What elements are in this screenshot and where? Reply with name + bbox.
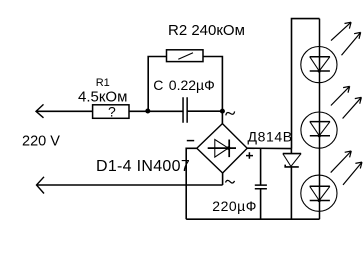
LED HL2 cathode bar [310, 135, 330, 137]
capacitor C2 220µФ plates [255, 185, 267, 189]
svg-text:4.5кОм: 4.5кОм [78, 89, 127, 106]
capacitor C plates [183, 97, 187, 123]
wire plus rail [247, 147, 291, 149]
bridge rectifier D1-4 diamond [197, 124, 247, 173]
svg-text:220 V: 220 V [22, 133, 60, 149]
wire zener branch top [290, 149, 292, 154]
LED HL1 circle [301, 47, 337, 83]
wire node B to bridge top corner [221, 111, 223, 123]
wire R2 branch right [203, 57, 222, 112]
LED HL1 junction dot [318, 69, 321, 72]
LED HL3 triangle [310, 185, 330, 187]
svg-text:C: C [153, 77, 163, 93]
zener cathode bar with tick [285, 165, 299, 167]
zener diode Д814В triangle top edge [283, 153, 301, 155]
LED HL3 arrow a [331, 151, 352, 173]
svg-text:220µФ: 220µФ [212, 198, 257, 214]
bridge inner diode wire [208, 147, 236, 149]
zener diode triangle sides [283, 154, 301, 167]
wire bottom rail [186, 218, 319, 220]
wire W1 top AC line [36, 110, 93, 112]
resistor R2 [167, 50, 204, 62]
label ~ bottom AC terminal [225, 179, 235, 184]
node A junction dot [145, 109, 150, 114]
wire W1c node A to capacitor C [148, 110, 183, 112]
bridge inner diode junction dot [227, 146, 231, 150]
LED HL3 circle [301, 175, 337, 211]
wire capacitor C2 branch bottom [260, 189, 262, 219]
wire minus branch [186, 148, 197, 219]
wire zener branch bottom [290, 167, 292, 219]
wire R2 branch left [148, 57, 166, 112]
svg-text:R2 240кОм: R2 240кОм [168, 22, 245, 39]
wire W1d capacitor to node B [187, 110, 222, 112]
bridge inner diode cathode bar [228, 140, 230, 158]
LED HL2 arrow b [343, 97, 362, 118]
LED HL3 junction dot [318, 199, 321, 202]
bridge inner diode triangle [215, 140, 229, 158]
LED HL2 junction dot [318, 134, 321, 137]
wire LED column [319, 19, 321, 220]
LED HL1 arrow a [331, 22, 351, 40]
svg-text:0.22µФ: 0.22µФ [169, 77, 215, 93]
svg-text:R1: R1 [96, 77, 110, 89]
wire W1b R1 to node A [129, 110, 148, 112]
wire W2 bottom AC line [37, 184, 223, 186]
R2 diagonal mark [178, 53, 193, 60]
wire LED loop left and top rail [292, 19, 320, 149]
label minus terminal [187, 140, 194, 142]
arrow on wire W2 [37, 177, 45, 194]
LED HL1 arrow b [342, 32, 361, 55]
node B junction dot [220, 109, 225, 114]
LED HL1 triangle [310, 56, 330, 58]
LED HL3 arrow b [343, 162, 362, 185]
svg-text:D1-4 IN4007: D1-4 IN4007 [96, 158, 190, 175]
LED HL3 cathode bar [310, 200, 330, 202]
LED HL2 triangle [310, 121, 330, 123]
LED HL2 arrow a [331, 86, 350, 105]
LED HL2 circle [301, 112, 337, 148]
resistor R1 [93, 105, 129, 119]
wire capacitor C2 branch top [260, 149, 262, 185]
LED HL1 cathode bar [310, 70, 330, 72]
label plus terminal [246, 152, 253, 159]
label ~ top AC terminal [225, 110, 235, 117]
svg-text:Д814В: Д814В [248, 129, 293, 145]
arrow on wire W1 [36, 104, 44, 117]
svg-text:?: ? [108, 104, 116, 120]
wire bridge bottom corner to W2 [222, 173, 224, 185]
